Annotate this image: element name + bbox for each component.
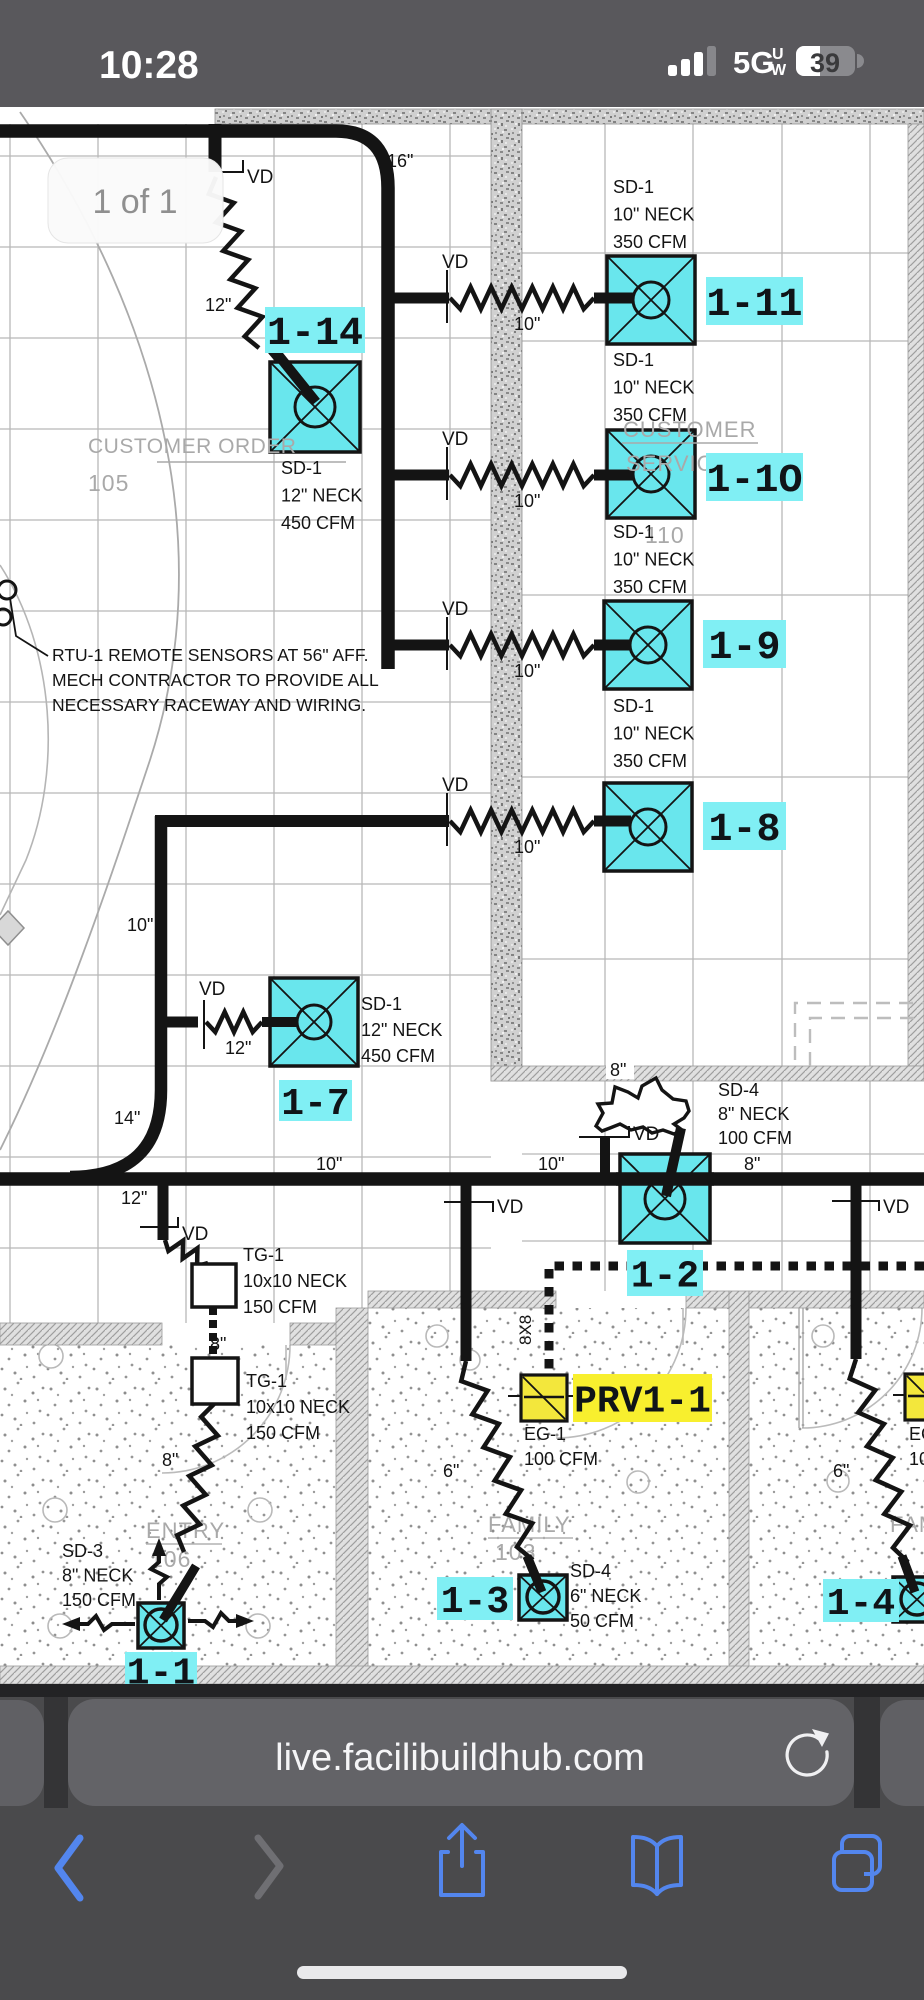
label 1-10 bbox=[706, 453, 803, 501]
svg-text:10": 10" bbox=[514, 314, 540, 334]
svg-text:1-14: 1-14 bbox=[267, 312, 363, 357]
label 1-14 bbox=[265, 307, 365, 353]
branch down to 1-4 bbox=[851, 1181, 862, 1359]
svg-text:150 CFM: 150 CFM bbox=[62, 1590, 136, 1610]
door arc FAMILY bbox=[556, 1308, 686, 1438]
svg-text:100 CFM: 100 CFM bbox=[718, 1128, 792, 1148]
wall left rooms top bbox=[0, 1323, 162, 1345]
toolbar seam bbox=[0, 1684, 924, 1697]
diffuser SD-1 1-10 bbox=[607, 430, 695, 518]
diffuser SD-4 1-4 (clipped) bbox=[893, 1577, 924, 1622]
duct stubs over diffusers bbox=[275, 351, 316, 402]
svg-text:SD-4: SD-4 bbox=[570, 1561, 611, 1581]
plan curve outer arc bbox=[0, 112, 179, 1150]
home indicator bbox=[297, 1966, 627, 1979]
svg-text:450 CFM: 450 CFM bbox=[361, 1046, 435, 1066]
svg-text:TG-1: TG-1 bbox=[246, 1371, 287, 1391]
door arc right room bbox=[802, 1308, 922, 1428]
url pill bbox=[68, 1699, 854, 1806]
svg-text:10": 10" bbox=[514, 837, 540, 857]
diffuser neck circles bbox=[295, 387, 335, 427]
tab pill gaps bbox=[44, 1697, 68, 1808]
svg-text:MECH CONTRACTOR TO PROVIDE ALL: MECH CONTRACTOR TO PROVIDE ALL bbox=[52, 670, 379, 690]
branch to 1-11 bbox=[392, 293, 449, 304]
wall family top bbox=[368, 1291, 556, 1308]
ceiling grid right zone bbox=[522, 124, 924, 1291]
svg-text:VD: VD bbox=[883, 1197, 909, 1218]
svg-text:105: 105 bbox=[88, 470, 129, 496]
svg-text:CUSTOMER ORDER: CUSTOMER ORDER bbox=[88, 435, 296, 458]
svg-text:VD: VD bbox=[199, 979, 225, 1000]
room floor FAMILY bbox=[368, 1308, 729, 1666]
svg-text:10x10 NECK: 10x10 NECK bbox=[246, 1397, 350, 1417]
svg-text:W: W bbox=[771, 62, 787, 79]
svg-text:12": 12" bbox=[225, 1038, 251, 1058]
diffuser SD-1 1-8 bbox=[604, 783, 692, 871]
svg-text:SD-3: SD-3 bbox=[62, 1541, 103, 1561]
riser duct left bbox=[70, 816, 161, 1177]
SD-3 throw arrow right bbox=[188, 1613, 240, 1627]
branch down to 1-3 bbox=[461, 1181, 472, 1361]
branch to 1-10 bbox=[392, 470, 449, 481]
svg-text:10" NECK: 10" NECK bbox=[613, 724, 694, 744]
svg-text:16": 16" bbox=[387, 151, 413, 171]
svg-text:1-4: 1-4 bbox=[827, 1583, 895, 1626]
label 1-1 bbox=[125, 1652, 197, 1688]
left tab pill edge bbox=[0, 1700, 44, 1806]
SD-3 throw arrow up bbox=[151, 1550, 167, 1600]
SD-3 throw arrow left bbox=[76, 1616, 135, 1630]
wall top band bbox=[215, 109, 924, 124]
flex duct to 1-14 bbox=[209, 177, 263, 348]
RTU sensor symbol bbox=[0, 581, 16, 599]
svg-text:8X8: 8X8 bbox=[516, 1315, 535, 1345]
svg-text:VD: VD bbox=[442, 599, 468, 620]
svg-text:VD: VD bbox=[247, 167, 273, 188]
diffuser SD-1 1-7 bbox=[270, 978, 358, 1066]
svg-text:10": 10" bbox=[514, 491, 540, 511]
wall entry/family vertical bbox=[336, 1308, 368, 1684]
svg-text:8": 8" bbox=[210, 1334, 226, 1354]
svg-text:12" NECK: 12" NECK bbox=[361, 1020, 442, 1040]
svg-text:10x10 NECK: 10x10 NECK bbox=[243, 1271, 347, 1291]
wall right room top bbox=[749, 1291, 924, 1308]
label PRV1-1 bbox=[573, 1374, 712, 1422]
svg-text:1-8: 1-8 bbox=[708, 808, 780, 853]
svg-text:350 CFM: 350 CFM bbox=[613, 751, 687, 771]
door arc ENTRY bbox=[162, 1345, 290, 1473]
flex cloud SD-4 bbox=[596, 1078, 689, 1134]
svg-text:10": 10" bbox=[316, 1154, 342, 1174]
dashed duct between grilles bbox=[209, 1307, 217, 1357]
VD marker top-left bbox=[222, 160, 243, 172]
exhaust grille EG-1 bbox=[521, 1375, 567, 1421]
svg-text:1-2: 1-2 bbox=[631, 1255, 699, 1298]
duct stub into 1-14 bbox=[272, 350, 315, 401]
ceiling grid left zone bbox=[0, 124, 491, 1323]
signal bars bbox=[668, 65, 677, 76]
branch to 1-7 bbox=[161, 1017, 198, 1028]
label 1-8 bbox=[703, 802, 786, 850]
svg-text:50 CFM: 50 CFM bbox=[570, 1611, 634, 1631]
diffuser SD-4 1-3 bbox=[519, 1575, 567, 1620]
svg-text:EG-1: EG-1 bbox=[524, 1424, 566, 1444]
svg-text:8": 8" bbox=[744, 1154, 760, 1174]
VD marker at SD-4 bbox=[579, 1126, 629, 1137]
svg-text:SD-1: SD-1 bbox=[613, 177, 654, 197]
label 1-9 bbox=[703, 620, 786, 668]
svg-text:10" NECK: 10" NECK bbox=[613, 205, 694, 225]
svg-text:100: 100 bbox=[909, 1449, 924, 1469]
svg-text:350 CFM: 350 CFM bbox=[613, 405, 687, 425]
svg-text:PRV1-1: PRV1-1 bbox=[574, 1380, 711, 1423]
svg-text:live.facilibuildhub.com: live.facilibuildhub.com bbox=[275, 1737, 645, 1779]
book icon bbox=[633, 1837, 681, 1894]
diffuser SD-4 1-2 bbox=[620, 1154, 710, 1243]
branch to 1-9 bbox=[392, 640, 449, 651]
tabs icon bbox=[834, 1836, 880, 1890]
status bar bbox=[0, 0, 924, 107]
duct trunk top-left with bend bbox=[0, 131, 388, 669]
svg-text:14": 14" bbox=[114, 1108, 140, 1128]
label 1-7 bbox=[279, 1080, 352, 1121]
svg-text:5G: 5G bbox=[733, 45, 774, 80]
duct stub up from trunk (8in to SD-4) bbox=[600, 1138, 610, 1180]
svg-text:U: U bbox=[772, 46, 784, 63]
label 1-11 bbox=[706, 277, 803, 325]
svg-text:1-11: 1-11 bbox=[706, 283, 802, 328]
svg-text:SD-1: SD-1 bbox=[361, 994, 402, 1014]
reload icon bbox=[787, 1735, 827, 1775]
svg-text:VD: VD bbox=[442, 252, 468, 273]
wall family/right vertical bbox=[729, 1291, 749, 1684]
room floor ENTRY bbox=[0, 1345, 336, 1666]
branch to 1-8 bbox=[155, 815, 449, 827]
svg-text:12": 12" bbox=[121, 1188, 147, 1208]
right tab pill edge bbox=[880, 1700, 924, 1806]
back chevron bbox=[58, 1838, 80, 1898]
svg-text:6": 6" bbox=[443, 1461, 459, 1481]
svg-text:12": 12" bbox=[205, 295, 231, 315]
duct stub at top-left VD bbox=[209, 124, 222, 172]
label 1-3 bbox=[437, 1577, 513, 1620]
flex down to SD-3 bbox=[177, 1404, 218, 1552]
exhaust grille EG right edge (clipped) bbox=[905, 1374, 924, 1420]
diffuser SD-1 1-14 bbox=[270, 362, 360, 452]
svg-text:SD-1: SD-1 bbox=[613, 522, 654, 542]
svg-text:6": 6" bbox=[833, 1461, 849, 1481]
toolbar background bbox=[0, 1697, 924, 2000]
svg-text:1-7: 1-7 bbox=[281, 1083, 349, 1126]
svg-text:1-3: 1-3 bbox=[441, 1581, 509, 1624]
room floor right bbox=[749, 1308, 924, 1666]
grille TG-1 lower bbox=[192, 1358, 238, 1404]
svg-text:EG-1: EG-1 bbox=[909, 1424, 924, 1444]
diffuser SD-1 1-9 bbox=[604, 601, 692, 689]
svg-text:350 CFM: 350 CFM bbox=[613, 232, 687, 252]
svg-text:8" NECK: 8" NECK bbox=[718, 1104, 789, 1124]
svg-text:TG-1: TG-1 bbox=[243, 1245, 284, 1265]
svg-text:150 CFM: 150 CFM bbox=[243, 1297, 317, 1317]
label 1-4 bbox=[823, 1579, 899, 1622]
plan white background bbox=[0, 107, 924, 1684]
battery 39 bbox=[796, 46, 855, 76]
svg-text:SD-1: SD-1 bbox=[281, 458, 322, 478]
svg-text:SD-1: SD-1 bbox=[613, 350, 654, 370]
wall right edge band bbox=[908, 124, 924, 1066]
svg-text:12" NECK: 12" NECK bbox=[281, 486, 362, 506]
diffuser SD-3 1-1 bbox=[138, 1603, 184, 1648]
fixture circles bbox=[39, 1344, 63, 1368]
svg-text:SD-4: SD-4 bbox=[718, 1080, 759, 1100]
svg-text:RTU-1 REMOTE SENSORS AT 56" AF: RTU-1 REMOTE SENSORS AT 56" AFF. bbox=[52, 645, 368, 665]
svg-text:NECESSARY RACEWAY AND WIRING.: NECESSARY RACEWAY AND WIRING. bbox=[52, 695, 366, 715]
wall bottom band bbox=[0, 1666, 924, 1684]
svg-text:VD: VD bbox=[442, 429, 468, 450]
svg-text:39: 39 bbox=[810, 48, 840, 78]
svg-text:10": 10" bbox=[514, 661, 540, 681]
svg-text:100 CFM: 100 CFM bbox=[524, 1449, 598, 1469]
svg-text:1-1O: 1-1O bbox=[706, 459, 802, 504]
plan diamond marker bbox=[0, 911, 24, 945]
svg-text:VD: VD bbox=[182, 1224, 208, 1245]
svg-text:8": 8" bbox=[162, 1450, 178, 1470]
page indicator pill bbox=[48, 158, 223, 243]
branch down to TG-1 grilles bbox=[158, 1181, 169, 1240]
label 1-2 bbox=[627, 1250, 703, 1296]
wall vertical mid band bbox=[491, 109, 522, 1081]
svg-text:6" NECK: 6" NECK bbox=[570, 1586, 641, 1606]
svg-text:SD-1: SD-1 bbox=[613, 696, 654, 716]
svg-text:8" NECK: 8" NECK bbox=[62, 1566, 133, 1586]
svg-text:350 CFM: 350 CFM bbox=[613, 577, 687, 597]
svg-text:1-9: 1-9 bbox=[708, 626, 780, 671]
grille TG-1 upper bbox=[192, 1264, 236, 1307]
svg-text:10": 10" bbox=[538, 1154, 564, 1174]
svg-text:VD: VD bbox=[442, 775, 468, 796]
wall mid horizontal band bbox=[491, 1066, 924, 1081]
svg-text:10": 10" bbox=[127, 915, 153, 935]
share icon bbox=[441, 1825, 483, 1895]
svg-text:150 CFM: 150 CFM bbox=[246, 1423, 320, 1443]
plan curve inner arc bbox=[0, 565, 48, 915]
svg-text:450 CFM: 450 CFM bbox=[281, 513, 355, 533]
svg-text:1 of 1: 1 of 1 bbox=[92, 183, 177, 221]
dashed exhaust duct bbox=[549, 1266, 924, 1372]
main lower trunk bbox=[0, 1172, 924, 1186]
trunk across 1-2 bbox=[616, 1172, 714, 1186]
svg-text:VD: VD bbox=[633, 1124, 659, 1145]
svg-text:VD: VD bbox=[497, 1197, 523, 1218]
svg-text:10" NECK: 10" NECK bbox=[613, 550, 694, 570]
diffuser SD-1 1-11 bbox=[607, 256, 695, 344]
svg-text:10:28: 10:28 bbox=[99, 44, 199, 87]
svg-text:8": 8" bbox=[610, 1060, 626, 1080]
dashed equipment outline bbox=[795, 1003, 924, 1066]
svg-text:10" NECK: 10" NECK bbox=[613, 378, 694, 398]
forward chevron bbox=[258, 1838, 280, 1896]
